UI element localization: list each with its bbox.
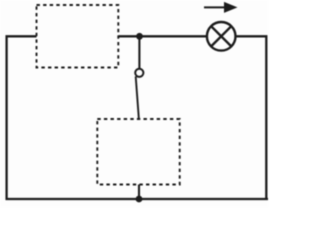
node A (junction dot on top wire) [136, 33, 143, 40]
wire: node A down to switch [138, 36, 140, 68]
lamp L1 (circle with X) [207, 22, 236, 51]
node B (junction dot on bottom wire) [136, 196, 143, 203]
wire: right side [236, 36, 266, 199]
switch S1 lever wire down to box 2 [136, 76, 139, 119]
switch S1 (pivot circle) [135, 69, 143, 77]
component box 2 (dashed placeholder) [97, 119, 179, 185]
current direction arrow [204, 2, 238, 13]
wire: box 2 bottom to node B [138, 185, 140, 200]
wire: top-left segment and left side and bottom side [7, 36, 268, 199]
component box 1 (dashed placeholder) [37, 5, 119, 68]
wire: top middle segment (box1 to lamp) [119, 35, 207, 37]
